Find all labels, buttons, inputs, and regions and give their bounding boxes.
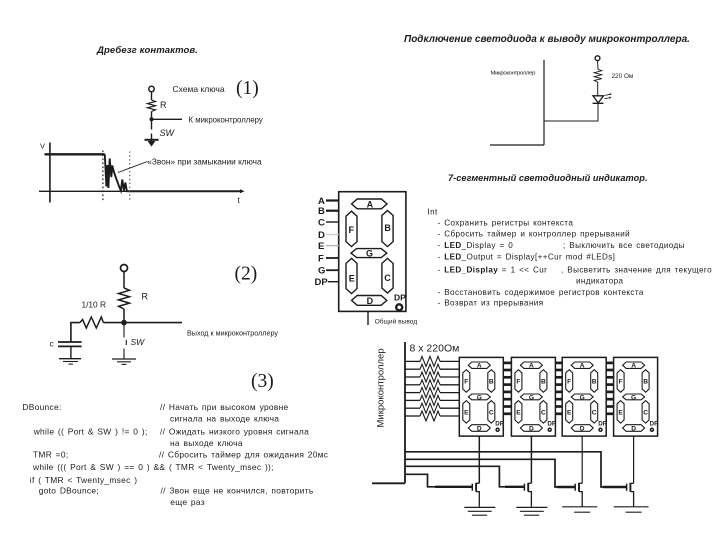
common wire DS3 xyxy=(581,436,583,483)
transistor Q3 xyxy=(575,483,582,507)
resistor R2 xyxy=(119,288,130,309)
wire xyxy=(597,82,599,96)
resistor R2 (220 Ом) xyxy=(420,364,440,374)
wire segment net E xyxy=(405,392,420,394)
svg-text:SW: SW xyxy=(131,337,146,347)
svg-text:// Ожидать низкого уровня: // Ожидать низкого уровня сигнала xyxy=(160,427,309,437)
svg-text:E: E xyxy=(349,273,355,283)
svg-text:(2): (2) xyxy=(235,264,258,285)
resistor R1 (220 Ом) xyxy=(420,356,440,366)
wire segment net B xyxy=(405,368,420,370)
capacitor C xyxy=(58,341,82,343)
svg-text:goto DBounce;: goto DBounce; xyxy=(39,486,99,496)
resistor R6 (220 Ом) xyxy=(420,395,440,405)
wire segment net C xyxy=(405,376,420,378)
svg-text:Дребезг контактов.: Дребезг контактов. xyxy=(96,45,198,56)
svg-text:if ( TMR < Twenty_msec ): if ( TMR < Twenty_msec ) xyxy=(30,475,138,485)
wire to microcontroller xyxy=(152,118,183,120)
wire bottom lead xyxy=(372,482,405,484)
svg-text:F: F xyxy=(349,225,355,235)
wire xyxy=(70,346,72,358)
ground Q1 xyxy=(464,507,495,515)
wire xyxy=(544,103,598,121)
wire xyxy=(123,309,125,323)
svg-text:while (( Port & SW ) !=: while (( Port & SW ) != 0 ); xyxy=(33,427,148,437)
common wire DS4 xyxy=(633,436,635,483)
svg-text:; Выключить все светодиоды: ; Выключить все светодиоды xyxy=(563,241,685,250)
svg-text:Выход к микроконтроллеру: Выход к микроконтроллеру xyxy=(187,329,278,338)
resistor R8 (220 Ом) xyxy=(420,411,440,421)
svg-text:V: V xyxy=(40,142,45,151)
svg-text:A: A xyxy=(367,199,374,209)
segment bus stubs between displays xyxy=(503,363,613,414)
segment D xyxy=(352,296,387,306)
resistor R7 (220 Ом) xyxy=(420,403,440,413)
svg-text:Микроконтроллер: Микроконтроллер xyxy=(491,71,537,77)
wire segment net G xyxy=(405,407,420,409)
select bus line 3 xyxy=(405,466,524,487)
waveform low level xyxy=(127,190,242,192)
resistor R3 (220 Ом) xyxy=(420,372,440,382)
select bus line 2 xyxy=(405,459,575,487)
svg-text:Микроконтроллер: Микроконтроллер xyxy=(376,348,387,427)
wire xyxy=(151,92,153,100)
transistor Q2 xyxy=(524,483,531,507)
ground (arrow) xyxy=(145,139,159,141)
svg-text:B: B xyxy=(384,223,391,233)
microcontroller edge line xyxy=(404,342,406,483)
7-seg display DS2 xyxy=(511,357,556,436)
svg-text:D: D xyxy=(367,296,374,306)
svg-text:- Возврат из прерывания: - Возврат из прерывания xyxy=(438,299,544,308)
svg-text:индикатора: индикатора xyxy=(576,277,623,286)
svg-text:B: B xyxy=(318,206,325,217)
svg-text:Общий вывод: Общий вывод xyxy=(375,318,418,326)
svg-text:- LED_Output = Display[++Cu: - LED_Output = Display[++Cur mod #LEDs] xyxy=(438,253,616,262)
svg-text:- Восстановить содержимое р: - Восстановить содержимое регистров конт… xyxy=(438,288,644,297)
7-seg display DS3 xyxy=(562,357,607,436)
svg-text:D: D xyxy=(318,230,325,241)
common wire DS1 xyxy=(478,436,480,483)
svg-text:// Звон еще не кончился,: // Звон еще не кончился, повторить xyxy=(161,486,314,496)
node junction xyxy=(150,117,154,121)
svg-text:// Начать при высоком уров: // Начать при высоком уровне xyxy=(160,402,289,412)
svg-text:C: C xyxy=(318,218,325,229)
ground Q3 xyxy=(562,507,597,512)
svg-text:- Сбросить таймер и контро: - Сбросить таймер и контроллер прерывани… xyxy=(438,229,631,238)
segment E xyxy=(346,258,357,293)
segment F xyxy=(346,211,357,246)
7-seg indicator body xyxy=(339,192,406,312)
wire output xyxy=(124,322,182,324)
svg-text:SW: SW xyxy=(160,128,176,138)
gate lead Q2 xyxy=(505,486,524,488)
select bus line 1 xyxy=(405,452,627,487)
wire xyxy=(597,61,600,70)
common pin wire xyxy=(367,311,369,325)
ground (capacitor) xyxy=(59,358,81,360)
svg-text:(1): (1) xyxy=(236,78,259,99)
wire xyxy=(123,272,125,289)
waveform t axis xyxy=(39,190,241,192)
pointer line xyxy=(118,162,148,173)
select bus line 4 xyxy=(405,474,472,487)
svg-text:while ((( Port & SW ) ==: while ((( Port & SW ) == 0 ) && ( TMR < … xyxy=(32,462,274,472)
svg-text:на выходе ключа: на выходе ключа xyxy=(170,438,243,448)
svg-text:Подключение светодиода к вы: Подключение светодиода к выводу микрокон… xyxy=(404,34,690,45)
svg-text:- LED_Display = 0: - LED_Display = 0 xyxy=(438,241,514,250)
gate lead Q3 xyxy=(557,486,575,488)
wire segment net D xyxy=(405,384,420,386)
svg-text:сигнала на выходе ключа: сигнала на выходе ключа xyxy=(170,414,279,424)
microcontroller box edge xyxy=(543,60,545,145)
ground Q4 xyxy=(614,507,649,512)
transistor Q4 xyxy=(627,483,634,507)
svg-text:8 x 220Ом: 8 x 220Ом xyxy=(410,343,460,355)
wire xyxy=(151,112,153,120)
terminal (circuit 1 top) xyxy=(149,86,154,91)
svg-text:7-сегментный светодиодный ин: 7-сегментный светодиодный индикатор. xyxy=(448,173,648,183)
terminal (LED circuit) xyxy=(595,56,600,61)
waveform bounce xyxy=(105,154,127,191)
segment G xyxy=(351,249,387,258)
ground (switch) xyxy=(112,358,136,360)
7-seg display DS4 xyxy=(614,357,659,436)
svg-text:G: G xyxy=(318,266,325,277)
svg-text:(3): (3) xyxy=(251,371,274,392)
svg-text:еще раз: еще раз xyxy=(170,497,205,507)
ground Q2 xyxy=(516,507,547,515)
resistor bank wires (8 x 220) xyxy=(405,356,459,421)
7-seg display DS1 xyxy=(459,357,504,436)
dotted marker 1 xyxy=(102,151,104,201)
svg-text:G: G xyxy=(366,248,373,258)
wire segment net A xyxy=(405,360,420,362)
resistor 1/10 R xyxy=(80,317,104,328)
LED VD1 xyxy=(593,96,604,103)
wire segment net F xyxy=(405,399,420,401)
svg-text:// Сбросить таймер для ожи: // Сбросить таймер для ожидания 20мс xyxy=(159,450,328,460)
svg-text:DBounce:: DBounce: xyxy=(22,402,61,412)
common wire DS2 xyxy=(530,436,532,483)
switch SW1 xyxy=(151,121,153,130)
svg-text:1/10 R: 1/10 R xyxy=(82,300,106,310)
segment A xyxy=(352,199,387,209)
transistor Q1 xyxy=(472,483,479,507)
LED emission arrows xyxy=(605,98,611,99)
svg-text:F: F xyxy=(318,254,324,265)
resistor R4 (220 Ом) xyxy=(420,380,440,390)
wire corner to capacitor xyxy=(71,323,80,342)
gate lead Q1 xyxy=(435,486,472,488)
svg-text:C: C xyxy=(384,273,391,283)
wire segment net H xyxy=(405,415,420,417)
svg-text:E: E xyxy=(318,241,324,252)
terminal (circuit 2 top) xyxy=(121,265,128,272)
svg-text:R: R xyxy=(160,100,167,110)
dotted marker 2 xyxy=(129,152,131,201)
resistor R1 xyxy=(148,100,156,112)
svg-text:DP: DP xyxy=(315,277,329,288)
segment C xyxy=(382,258,393,293)
decimal point O xyxy=(396,304,402,310)
gate lead Q4 xyxy=(603,486,626,488)
node junction 2 xyxy=(121,320,127,326)
segment B xyxy=(382,211,393,247)
resistor 220 Ом xyxy=(594,69,602,82)
svg-text:Схема ключа: Схема ключа xyxy=(173,84,225,94)
switch SW2 xyxy=(123,323,125,338)
svg-text:Int: Int xyxy=(428,208,439,217)
svg-text:TMR =0;: TMR =0; xyxy=(33,450,68,460)
bus stubs (segment nets between displays) xyxy=(503,362,511,365)
svg-text:R: R xyxy=(142,292,149,302)
svg-text:220 Ом: 220 Ом xyxy=(612,73,634,80)
resistor R5 (220 Ом) xyxy=(420,388,440,398)
svg-text:К микроконтроллеру: К микроконтроллеру xyxy=(189,115,263,124)
svg-text:- LED_Display = 1 << Cur: - LED_Display = 1 << Cur xyxy=(438,265,548,274)
svg-text:- Сохранить регистры контек: - Сохранить регистры контекста xyxy=(438,219,574,228)
svg-text:«Звон» при замыкании ключа: «Звон» при замыкании ключа xyxy=(147,157,262,167)
waveform high level xyxy=(45,153,105,155)
svg-text:, Высветить значение для т: , Высветить значение для текущего xyxy=(561,265,712,274)
svg-text:DP: DP xyxy=(394,293,406,303)
